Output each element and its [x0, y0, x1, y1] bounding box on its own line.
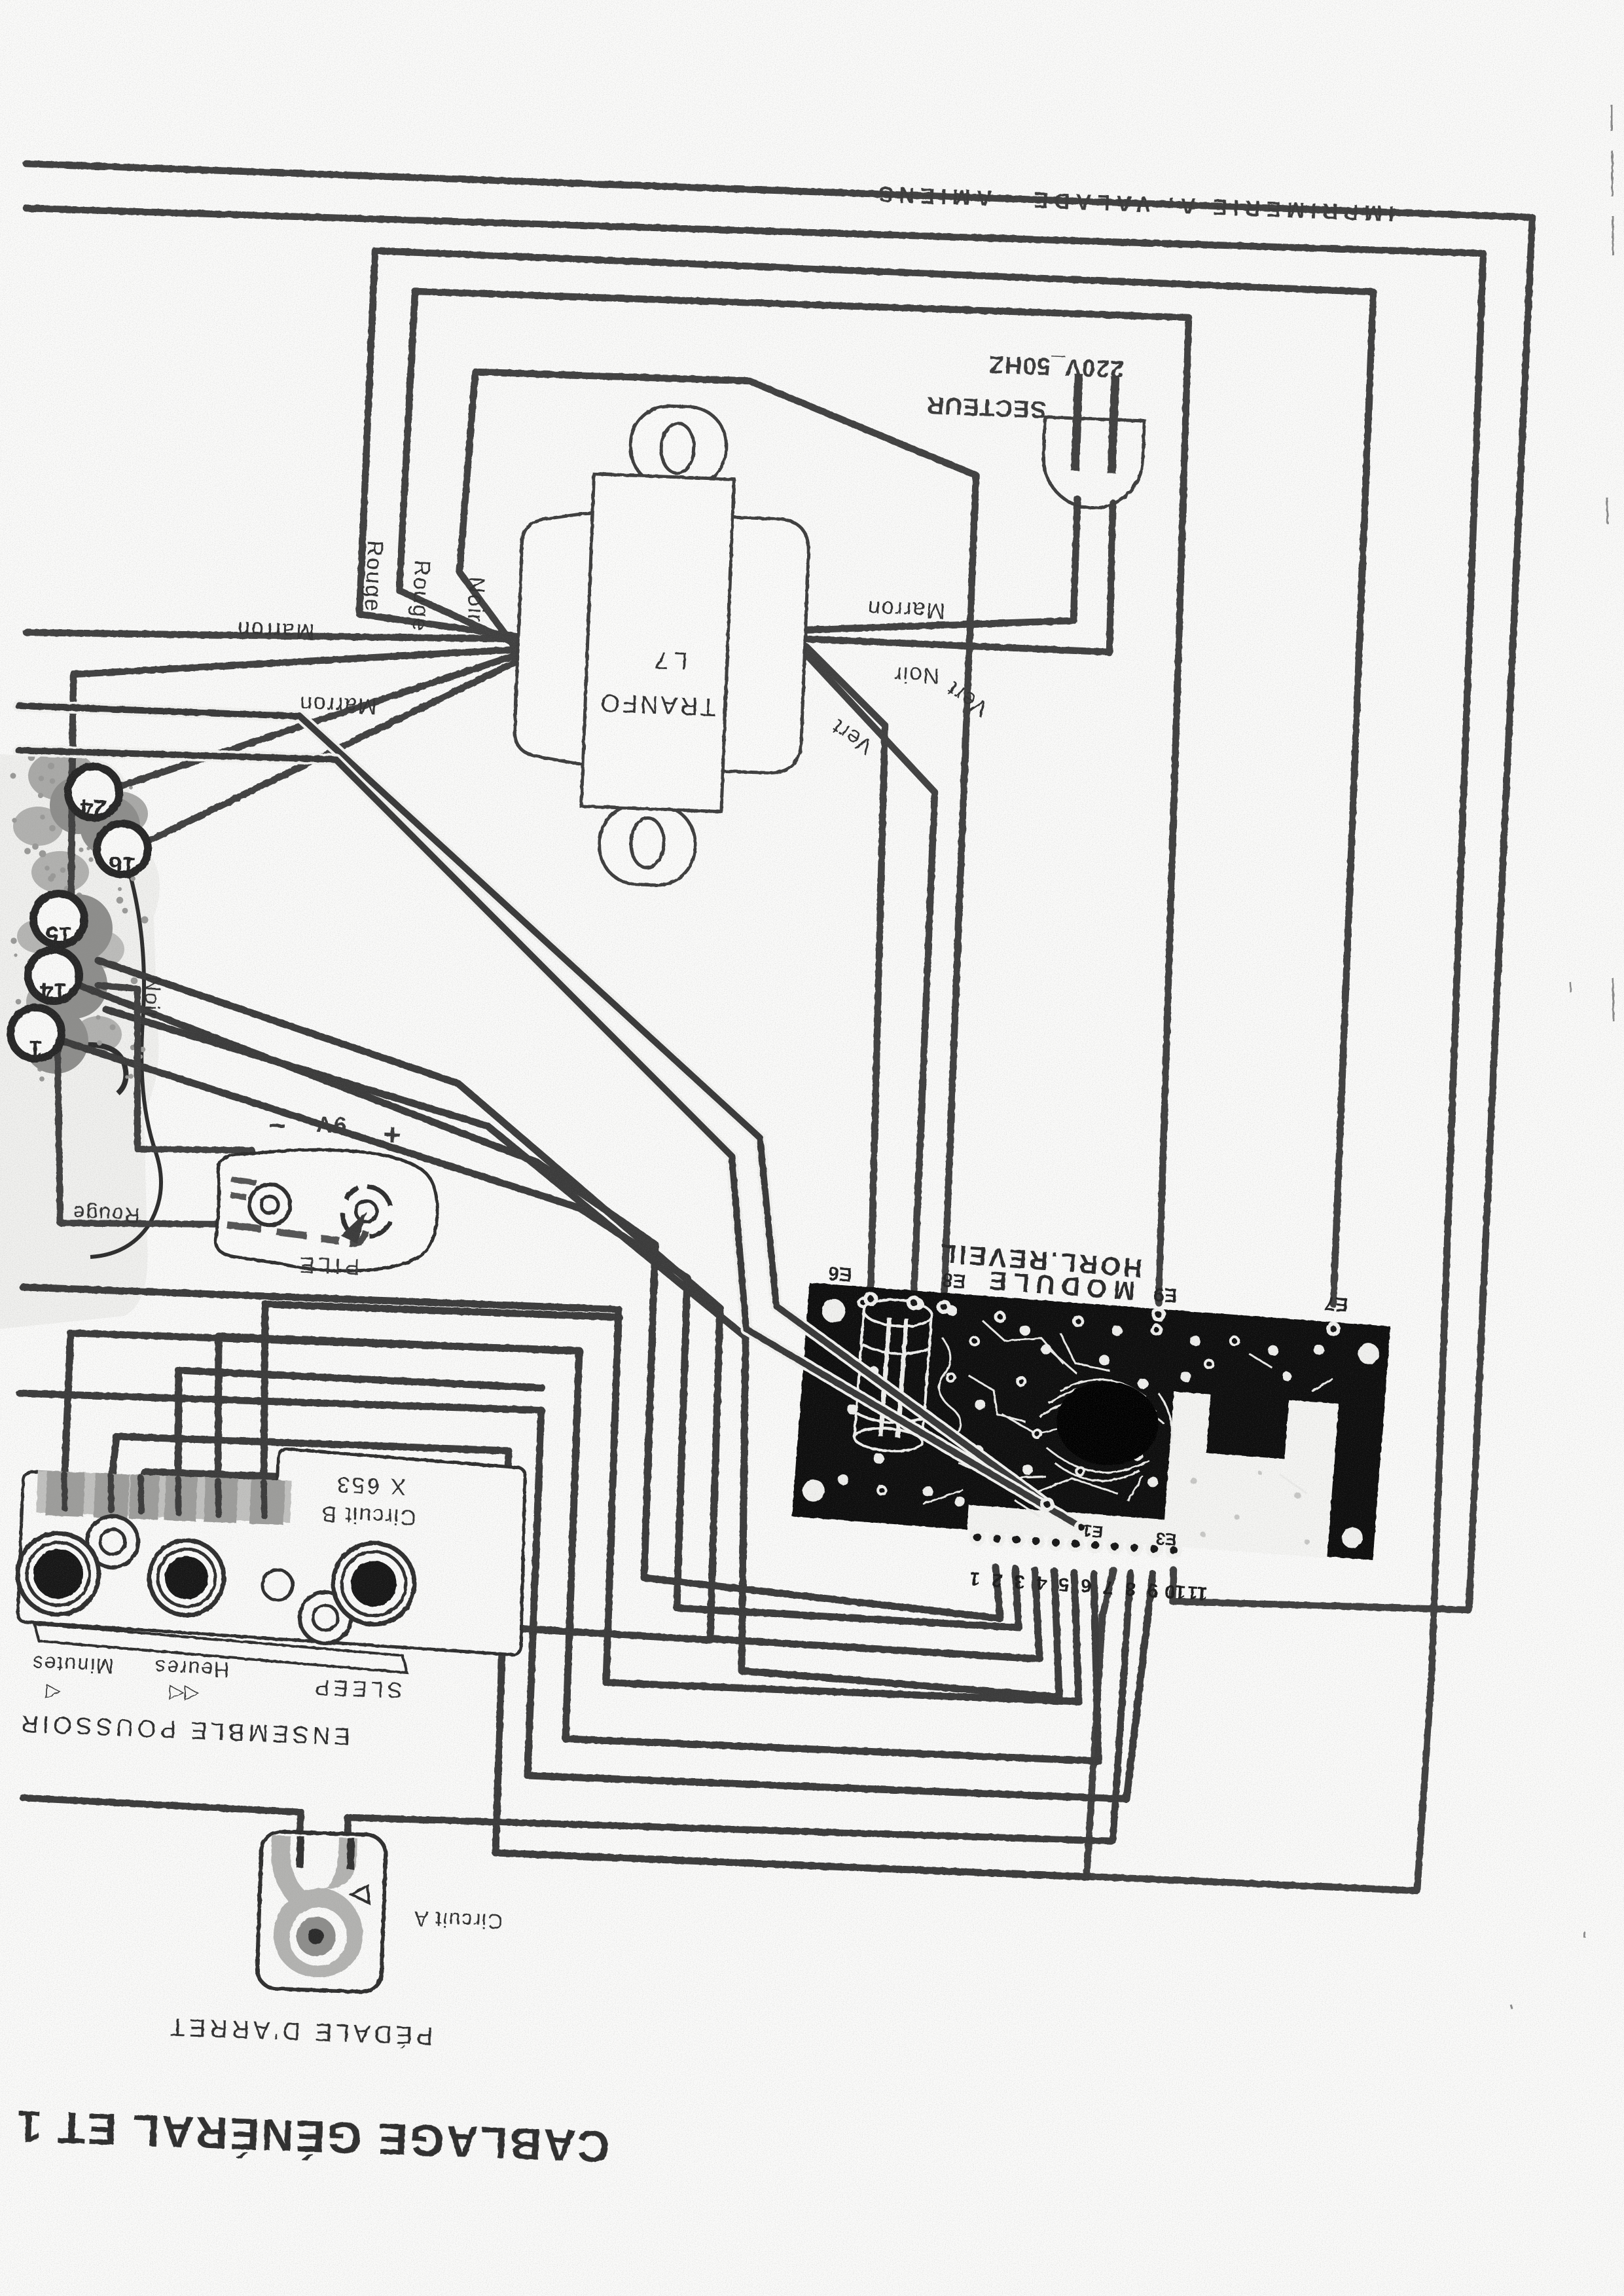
- wire display pad 1 to module pin 3: [38, 1033, 1019, 1628]
- mains plug SECTEUR 220V 50HZ: [1041, 373, 1146, 510]
- module pads E1 E3 (wire ends): [1040, 1497, 1089, 1535]
- battery clip PILE 9V: [215, 1146, 439, 1275]
- wire Vert: transformer fan to module pad E6: [806, 647, 885, 1293]
- display pad 16: [97, 824, 148, 875]
- wire left edge to pin8 (second outer loop, bottom-right rectangle): [26, 208, 1483, 1891]
- module pin numbers 1-11: [969, 1567, 1208, 1604]
- wire poussoir pad 5 junction: [218, 1336, 580, 1487]
- wire left edge to module pin 10: [20, 1393, 1153, 1799]
- wire poussoir pad 1 to module pin 7: [64, 1333, 1098, 1761]
- wire corner to display pad 15: [71, 674, 73, 930]
- wire pin11 to left edge (outer mains loop): [26, 164, 1532, 1610]
- pad shadow blobs: [23, 776, 140, 1074]
- wire Noir: battery negative to display board: [98, 985, 252, 1178]
- wire poussoir pad 6 junction: [264, 1304, 619, 1487]
- wire transformer fan to display pad 24: [98, 655, 517, 793]
- wire Marron: mains plug to transformer fan: [806, 499, 1077, 630]
- module pin pads 1-11: [969, 1529, 1182, 1559]
- scanner speck marks right edge: [1511, 105, 1614, 2009]
- module top wire entry pads E6 E8 E9 E7: [863, 1292, 1341, 1336]
- display pad 15: [33, 894, 84, 945]
- module PCB photo MODULE HORL.REVEIL: [792, 1283, 1390, 1561]
- push buttons Minutes / Heures / SLEEP: [18, 1516, 414, 1643]
- wire Rouge: battery positive lead: [39, 1038, 230, 1224]
- wire transformer fan to display pad 16: [128, 661, 517, 851]
- paper grain overlay: [0, 0, 1, 1]
- wire poussoir pad 2 to bottom wire junction: [111, 1436, 1088, 1877]
- halftone dots on display board: [10, 754, 149, 1082]
- wire poussoir pad 4 junction: [178, 1370, 542, 1487]
- wire left edge to module pad E3 (white halo crossing PCB): [18, 750, 1081, 1527]
- wire pedal right contact to module pin 9: [348, 1573, 1130, 1866]
- push button board Circuit B X653: [16, 1438, 528, 1677]
- wire diagonal bundle to module pin 4: [98, 960, 1039, 1659]
- wire Marron: transformer fan to corner above display pads: [73, 649, 517, 674]
- display pad 1: [10, 1008, 62, 1059]
- wire Rouge: transformer fan to module pad E7 (third loop): [359, 251, 1373, 1304]
- wire left edge to module pin 6: [23, 1287, 1079, 1702]
- transformer TRANFO L7: [509, 401, 814, 890]
- wire Vert: transformer fan to module pad E8 (left): [806, 655, 935, 1296]
- wire Marron: transformer fan to left edge: [26, 632, 517, 639]
- foot pedal PEDALE D'ARRET (Circuit A): [257, 1831, 386, 1992]
- wire Noir: mains plug to transformer fan: [806, 503, 1113, 652]
- display pad 14: [28, 950, 79, 1001]
- wire pedal left contact to left edge: [23, 1798, 301, 1865]
- display pad 24: [68, 767, 119, 818]
- display board edge (left, partially visible): [0, 751, 161, 1329]
- small hole on button board: [262, 1570, 293, 1600]
- wire Rouge: transformer fan to module pad E9 (fourth loop): [399, 291, 1189, 1303]
- wire left edge to module pad E1 (white halo crossing PCB): [18, 706, 1047, 1504]
- wire display pad 14 to module pin 2: [54, 975, 1000, 1618]
- wire stubs into poussoir pads: [64, 1474, 264, 1516]
- wire Noir: transformer fan to module pad E8: [460, 372, 976, 1303]
- wire poussoir pad 3 to diagonal-bundle junction: [141, 1472, 710, 1640]
- wire diagonal bundle to module pin 5: [106, 1010, 1059, 1697]
